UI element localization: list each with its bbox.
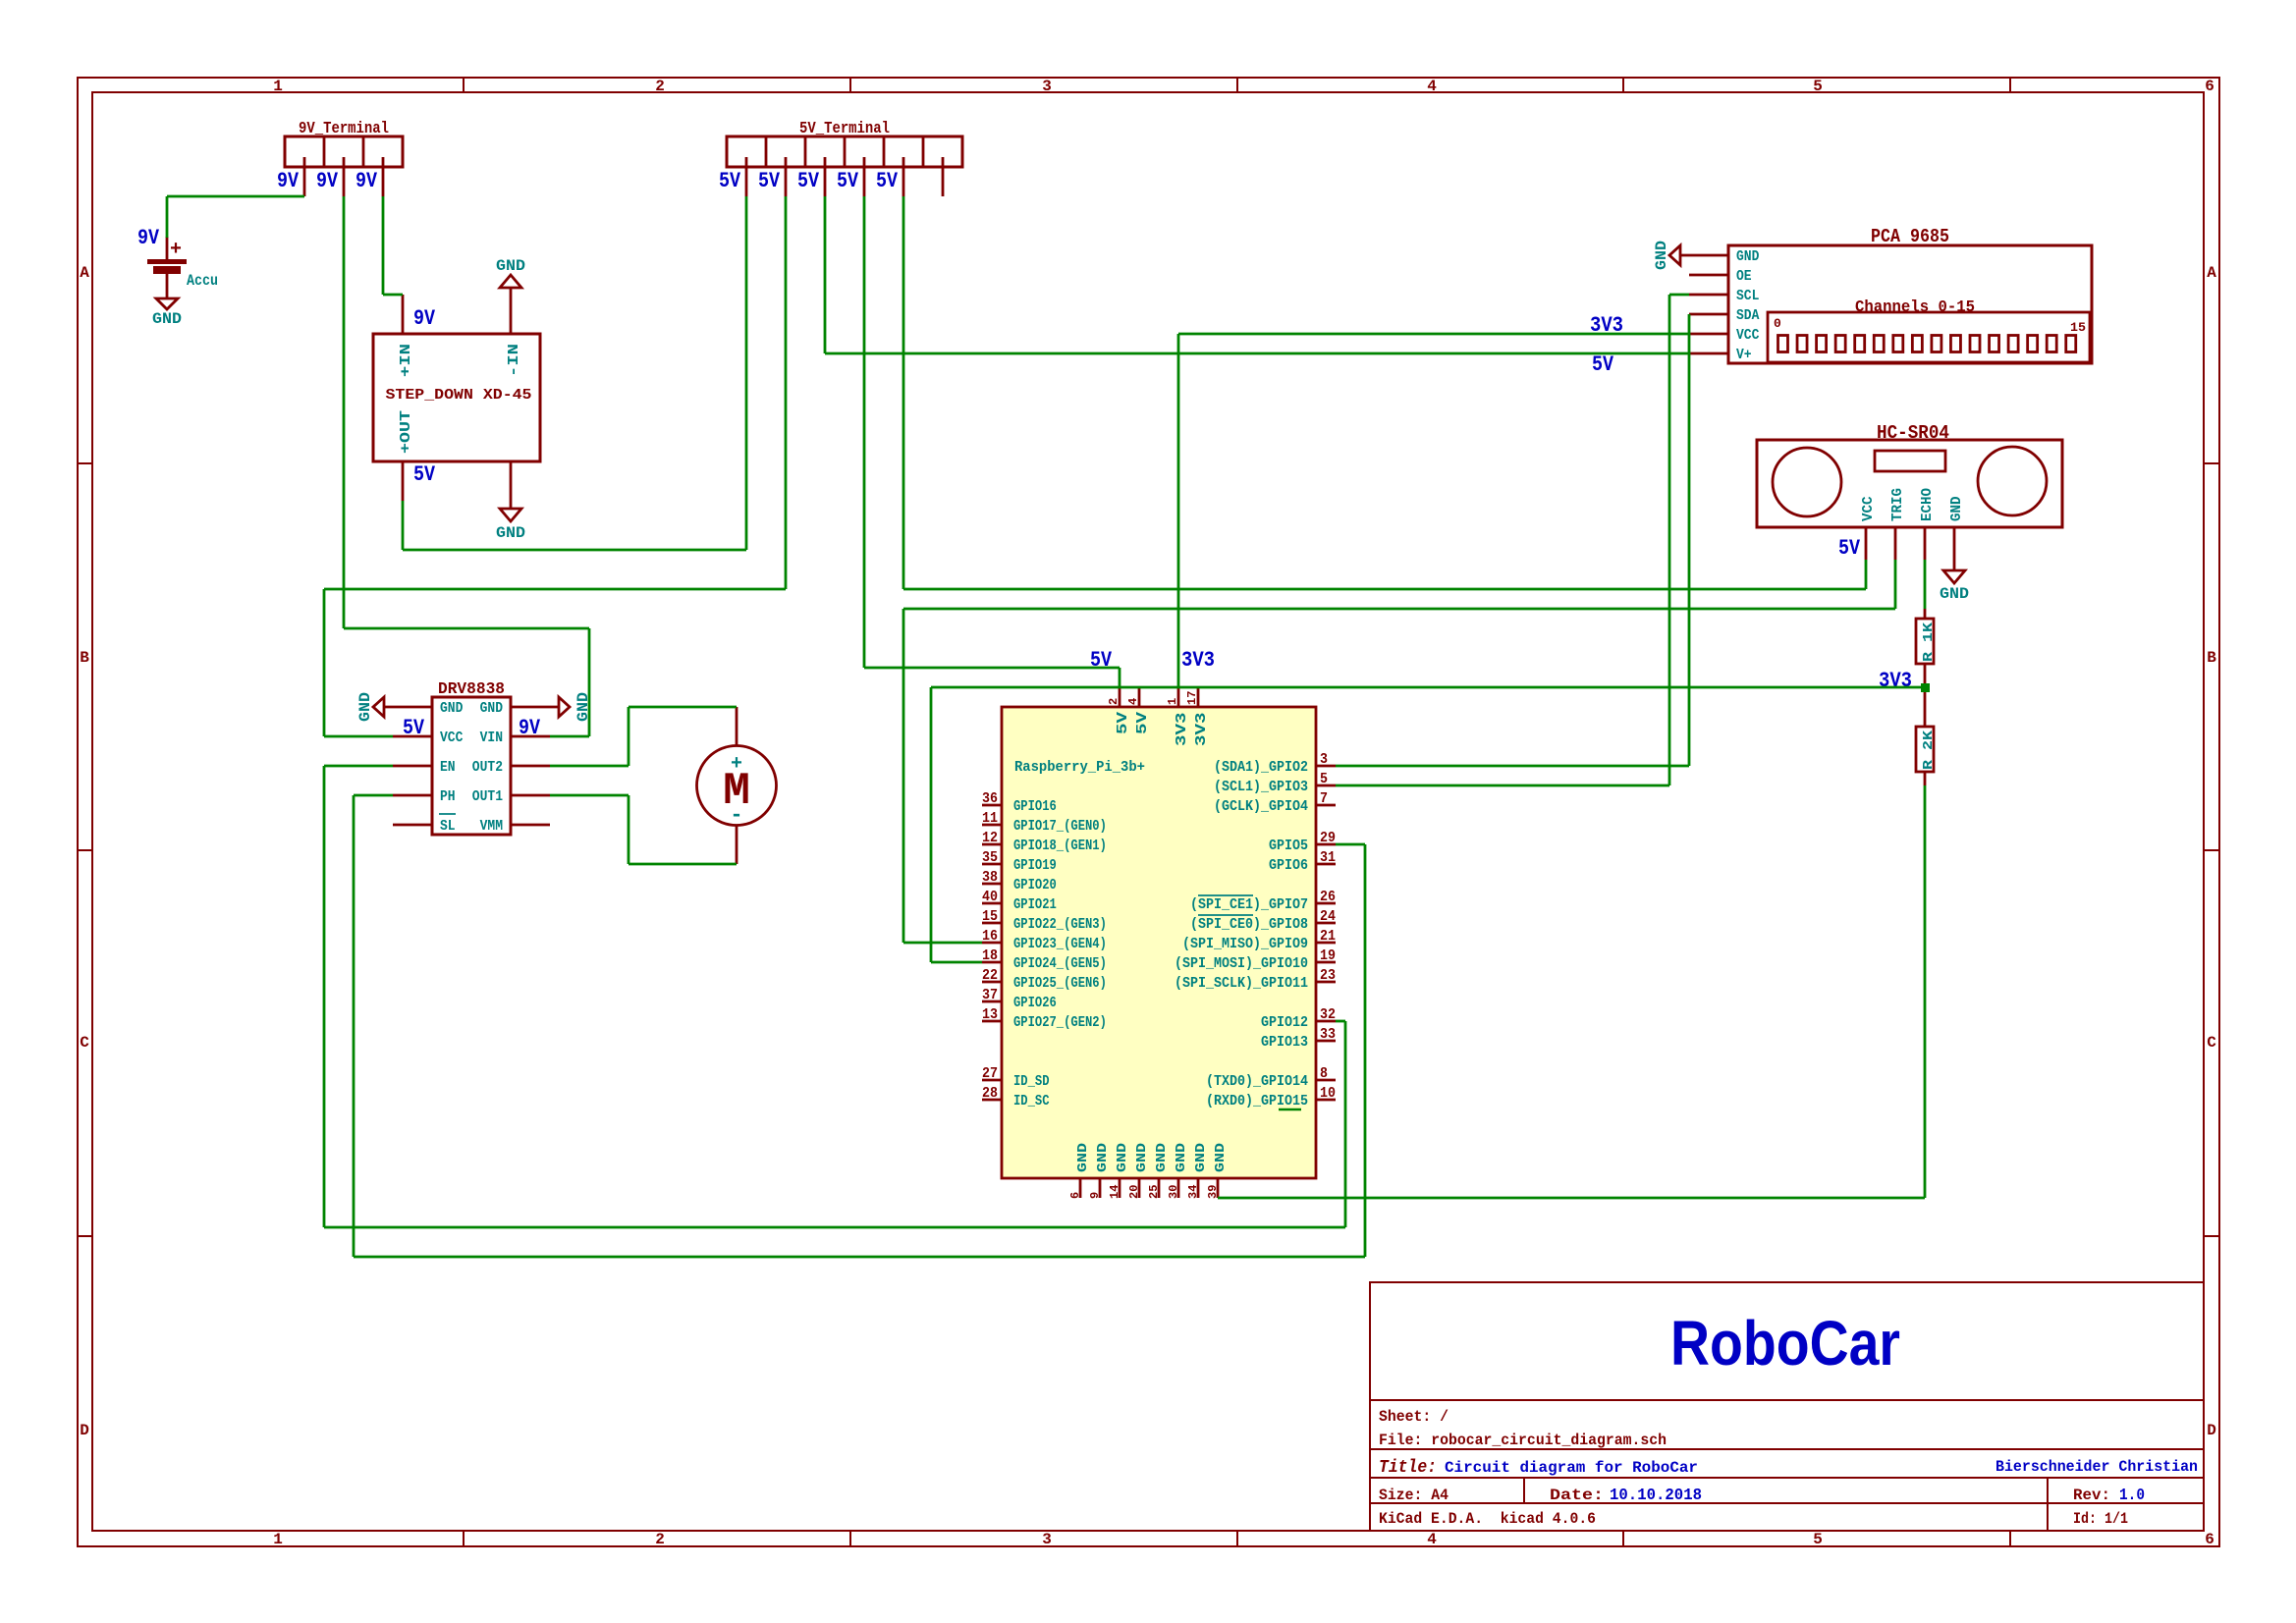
svg-text:C: C <box>2207 1034 2216 1052</box>
svg-text:3: 3 <box>1042 1531 1052 1548</box>
svg-text:Rev:: Rev: <box>2073 1487 2110 1504</box>
svg-text:VCC: VCC <box>1860 497 1877 522</box>
wire 3V3 vertical to PCA VCC <box>1177 334 1180 687</box>
svg-text:22: 22 <box>982 967 998 984</box>
svg-text:36: 36 <box>982 790 998 807</box>
svg-text:12: 12 <box>982 830 998 846</box>
DRV8838 left GND flag <box>384 706 432 709</box>
svg-text:R 2K: R 2K <box>1921 730 1937 770</box>
title block <box>1370 1282 2204 1531</box>
svg-text:VIN: VIN <box>480 730 503 746</box>
svg-text:VCC: VCC <box>440 730 463 746</box>
svg-text:3: 3 <box>1042 78 1052 95</box>
svg-text:KiCad E.D.A. kicad 4.0.6: KiCad E.D.A. kicad 4.0.6 <box>1379 1510 1596 1528</box>
pin at x=880 <box>863 157 866 196</box>
svg-text:GPIO12: GPIO12 <box>1261 1014 1308 1031</box>
svg-text:4: 4 <box>1427 1531 1437 1548</box>
svg-text:ID_SD: ID_SD <box>1013 1073 1050 1090</box>
svg-text:6: 6 <box>2205 1531 2214 1548</box>
svg-text:+IN: +IN <box>398 344 414 377</box>
svg-text:1: 1 <box>273 1531 283 1548</box>
svg-text:5V: 5V <box>876 169 899 193</box>
svg-text:D: D <box>80 1422 89 1439</box>
HC-SR04 pin stubs <box>1865 527 1868 560</box>
svg-text:27: 27 <box>982 1065 998 1082</box>
svg-text:5V: 5V <box>1115 712 1131 734</box>
svg-text:GND: GND <box>496 524 525 542</box>
svg-text:GPIO20: GPIO20 <box>1013 877 1057 893</box>
resistor R 1K <box>1916 619 1934 664</box>
svg-text:5V: 5V <box>403 716 425 740</box>
svg-text:GND: GND <box>1154 1143 1170 1172</box>
svg-text:5V: 5V <box>1838 536 1861 561</box>
wire OUT2 to motor + <box>550 765 629 768</box>
svg-text:GND: GND <box>1948 497 1965 522</box>
svg-text:+OUT: +OUT <box>398 410 414 454</box>
wire TRIG to GPIO23 <box>902 609 905 943</box>
svg-text:15: 15 <box>982 908 998 925</box>
svg-text:TRIG: TRIG <box>1889 488 1906 521</box>
svg-text:5V: 5V <box>1592 352 1614 377</box>
ground symbol below battery <box>156 298 178 309</box>
svg-text:9V: 9V <box>519 716 541 740</box>
svg-text:4: 4 <box>1427 78 1437 95</box>
svg-text:PCA 9685: PCA 9685 <box>1871 226 1949 247</box>
wire Pi GND to R2K <box>1218 1197 1925 1200</box>
svg-text:5V: 5V <box>719 169 741 193</box>
wire OUT1 to motor - <box>550 794 629 797</box>
svg-text:GPIO26: GPIO26 <box>1013 995 1057 1011</box>
svg-text:GND: GND <box>1736 248 1759 265</box>
svg-text:10.10.2018: 10.10.2018 <box>1610 1487 1702 1505</box>
resistor R 2K <box>1916 727 1934 772</box>
svg-text:34: 34 <box>1186 1185 1200 1199</box>
svg-text:Size: A4: Size: A4 <box>1379 1487 1449 1504</box>
svg-text:GPIO13: GPIO13 <box>1261 1034 1308 1051</box>
svg-text:GPIO17_(GEN0): GPIO17_(GEN0) <box>1013 818 1107 835</box>
wire +OUT 5V to 5V pin1 <box>402 501 405 550</box>
svg-text:5V: 5V <box>1090 648 1113 673</box>
svg-text:GND: GND <box>480 700 503 717</box>
wire PCA SDA to Pi GPIO2 <box>1688 314 1691 766</box>
PWM driver PCA 9685 <box>1728 245 2092 363</box>
svg-text:Title:: Title: <box>1379 1458 1437 1478</box>
svg-text:40: 40 <box>982 889 998 905</box>
svg-text:6: 6 <box>2205 78 2214 95</box>
svg-text:+: + <box>170 239 182 261</box>
GND flag below -OUT <box>500 509 521 521</box>
svg-text:14: 14 <box>1108 1185 1121 1199</box>
svg-text:(RXD0)_GPIO15: (RXD0)_GPIO15 <box>1206 1093 1308 1109</box>
svg-text:2: 2 <box>655 1531 665 1548</box>
GND flag above -IN <box>500 275 521 288</box>
pin at x=350 <box>343 157 346 196</box>
top power pins <box>1119 687 1121 707</box>
svg-text:(SPI_SCLK)_GPIO11: (SPI_SCLK)_GPIO11 <box>1175 975 1308 992</box>
motor M <box>697 746 777 826</box>
svg-text:35: 35 <box>982 849 998 866</box>
svg-text:OUT1: OUT1 <box>472 788 503 805</box>
wire GPIO5 to DRV PH <box>1336 843 1365 846</box>
svg-text:39: 39 <box>1206 1185 1220 1199</box>
pin at x=960 <box>942 157 945 196</box>
svg-text:5V: 5V <box>837 169 859 193</box>
svg-text:GND: GND <box>1095 1143 1111 1172</box>
svg-text:GND: GND <box>1940 585 1969 603</box>
svg-text:(SPI_MISO)_GPIO9: (SPI_MISO)_GPIO9 <box>1182 936 1308 952</box>
svg-text:EN: EN <box>440 759 456 776</box>
wire battery to 9V pin1 <box>167 195 304 198</box>
svg-text:+: + <box>731 753 742 776</box>
svg-text:GND: GND <box>440 700 463 717</box>
svg-text:33: 33 <box>1320 1026 1336 1043</box>
svg-text:29: 29 <box>1320 830 1336 846</box>
svg-text:OUT2: OUT2 <box>472 759 503 776</box>
svg-text:Raspberry_Pi_3b+: Raspberry_Pi_3b+ <box>1014 759 1145 776</box>
svg-text:9V: 9V <box>316 169 339 193</box>
svg-text:GPIO19: GPIO19 <box>1013 857 1057 874</box>
wire 5V pin2 to DRV VCC <box>785 196 788 589</box>
GND flag below HC-SR04 <box>1943 570 1965 583</box>
svg-text:23: 23 <box>1320 967 1336 984</box>
svg-text:B: B <box>2207 649 2216 667</box>
svg-text:(SPI_CE0)_GPIO8: (SPI_CE0)_GPIO8 <box>1190 916 1308 933</box>
svg-text:GND: GND <box>1213 1143 1229 1172</box>
svg-text:5V: 5V <box>1134 712 1151 734</box>
svg-text:30: 30 <box>1167 1185 1180 1199</box>
svg-text:(SCL1)_GPIO3: (SCL1)_GPIO3 <box>1214 779 1308 795</box>
svg-text:GPIO27_(GEN2): GPIO27_(GEN2) <box>1013 1014 1107 1031</box>
wire GPIO12 to DRV EN <box>1336 1020 1345 1023</box>
svg-text:26: 26 <box>1320 889 1336 905</box>
svg-text:GPIO18_(GEN1): GPIO18_(GEN1) <box>1013 838 1107 854</box>
svg-text:9V: 9V <box>137 226 160 250</box>
svg-text:STEP_DOWN XD-45: STEP_DOWN XD-45 <box>386 387 532 404</box>
PCA GND flag <box>1680 254 1728 257</box>
svg-text:-IN: -IN <box>506 344 522 377</box>
pin at x=760 <box>745 157 748 196</box>
svg-text:ECHO: ECHO <box>1919 488 1936 521</box>
wire 9V pin2 to VIN <box>343 196 346 628</box>
svg-text:3V3: 3V3 <box>1193 713 1210 747</box>
wire 5V pin4 to Pi 5V <box>863 196 866 668</box>
svg-text:PH: PH <box>440 788 456 805</box>
svg-text:5: 5 <box>1813 78 1823 95</box>
svg-text:SDA: SDA <box>1736 307 1759 324</box>
svg-text:R 1K: R 1K <box>1921 622 1937 662</box>
svg-text:(TXD0)_GPIO14: (TXD0)_GPIO14 <box>1206 1073 1308 1090</box>
svg-text:C: C <box>80 1034 89 1052</box>
svg-text:D: D <box>2207 1422 2216 1439</box>
wire 5V pin3 to PCA V+ <box>824 196 827 353</box>
svg-text:25: 25 <box>1147 1185 1161 1199</box>
svg-text:3V3: 3V3 <box>1879 669 1912 693</box>
svg-text:9V: 9V <box>413 306 436 331</box>
wire ECHO to R1K <box>1924 560 1927 609</box>
DRV8838 pin stubs <box>393 735 432 738</box>
svg-text:0: 0 <box>1774 316 1781 331</box>
svg-text:7: 7 <box>1320 790 1328 807</box>
pin -IN <box>510 289 513 334</box>
svg-text:1: 1 <box>273 78 283 95</box>
pin at x=310 <box>303 157 306 196</box>
svg-text:GPIO16: GPIO16 <box>1013 798 1057 815</box>
svg-text:GND: GND <box>1174 1143 1189 1172</box>
svg-text:5V: 5V <box>758 169 781 193</box>
svg-text:GPIO22_(GEN3): GPIO22_(GEN3) <box>1013 916 1107 933</box>
svg-text:10: 10 <box>1320 1085 1336 1102</box>
svg-text:ID_SC: ID_SC <box>1013 1093 1050 1109</box>
svg-text:GPIO21: GPIO21 <box>1013 896 1057 913</box>
svg-text:19: 19 <box>1320 947 1336 964</box>
svg-text:4: 4 <box>1126 698 1140 705</box>
svg-text:GND: GND <box>1653 241 1670 270</box>
pin at x=840 <box>824 157 827 196</box>
svg-text:GND: GND <box>1134 1143 1150 1172</box>
svg-text:1.0: 1.0 <box>2119 1487 2145 1505</box>
svg-text:SCL: SCL <box>1736 288 1759 304</box>
Raspberry_Pi_3b+ <box>1002 707 1316 1178</box>
svg-text:8: 8 <box>1320 1065 1328 1082</box>
svg-text:HC-SR04: HC-SR04 <box>1877 422 1949 444</box>
svg-text:GND: GND <box>356 692 374 722</box>
svg-text:A: A <box>80 264 89 282</box>
left pins <box>982 804 1002 807</box>
svg-text:6: 6 <box>1068 1192 1082 1199</box>
svg-text:GND: GND <box>1075 1143 1091 1172</box>
svg-text:3V3: 3V3 <box>1590 313 1623 338</box>
svg-text:21: 21 <box>1320 928 1336 945</box>
pin at x=390 <box>382 157 385 196</box>
svg-text:16: 16 <box>982 928 998 945</box>
svg-text:38: 38 <box>982 869 998 886</box>
svg-text:File: robocar_circuit_diagram.: File: robocar_circuit_diagram.sch <box>1379 1432 1667 1449</box>
svg-text:5: 5 <box>1813 1531 1823 1548</box>
svg-text:Sheet: /: Sheet: / <box>1379 1408 1449 1426</box>
svg-text:RoboCar: RoboCar <box>1670 1308 1900 1379</box>
svg-text:VMM: VMM <box>480 818 503 835</box>
svg-text:Id: 1/1: Id: 1/1 <box>2073 1510 2128 1528</box>
pin at x=920 <box>902 157 905 196</box>
svg-text:OE: OE <box>1736 268 1752 285</box>
pin +OUT <box>402 461 405 501</box>
svg-text:9: 9 <box>1088 1192 1102 1199</box>
svg-text:DRV8838: DRV8838 <box>438 680 505 699</box>
svg-text:GPIO25_(GEN6): GPIO25_(GEN6) <box>1013 975 1107 992</box>
svg-text:5: 5 <box>1320 771 1328 787</box>
motor driver DRV8838 <box>432 697 511 835</box>
svg-text:VCC: VCC <box>1736 327 1759 344</box>
wire PCA SCL to Pi GPIO3 <box>1669 294 1689 297</box>
svg-text:17: 17 <box>1185 691 1199 705</box>
svg-text:3V3: 3V3 <box>1174 713 1190 747</box>
svg-text:24: 24 <box>1320 908 1336 925</box>
svg-text:Date:: Date: <box>1550 1487 1604 1504</box>
svg-text:(GCLK)_GPIO4: (GCLK)_GPIO4 <box>1214 798 1308 815</box>
svg-text:GPIO24_(GEN5): GPIO24_(GEN5) <box>1013 955 1107 972</box>
wire 3V3 rail to GPIO24 <box>931 686 1925 689</box>
svg-text:GPIO23_(GEN4): GPIO23_(GEN4) <box>1013 936 1107 952</box>
svg-text:GND: GND <box>152 310 182 328</box>
svg-text:A: A <box>2207 264 2216 282</box>
svg-text:GND: GND <box>1115 1143 1130 1172</box>
wire 5V pin5 to HC-SR04 VCC <box>902 196 905 589</box>
svg-text:2: 2 <box>1107 698 1121 705</box>
svg-text:32: 32 <box>1320 1006 1336 1023</box>
svg-text:(SPI_MOSI)_GPIO10: (SPI_MOSI)_GPIO10 <box>1175 955 1308 972</box>
3V3 node junction <box>1921 683 1930 692</box>
svg-text:1: 1 <box>1166 698 1179 705</box>
svg-text:11: 11 <box>982 810 998 827</box>
svg-text:9V: 9V <box>355 169 378 193</box>
svg-text:SL: SL <box>440 818 456 835</box>
svg-text:5V: 5V <box>413 462 436 487</box>
svg-text:28: 28 <box>982 1085 998 1102</box>
svg-text:GND: GND <box>1193 1143 1209 1172</box>
DRV8838 right GND flag <box>511 706 559 709</box>
motor terminal stubs <box>736 707 738 746</box>
bottom GND pins <box>1079 1178 1082 1198</box>
svg-text:3V3: 3V3 <box>1181 648 1215 673</box>
svg-text:Bierschneider Christian: Bierschneider Christian <box>1995 1458 2198 1476</box>
svg-text:15: 15 <box>2070 320 2086 335</box>
svg-text:Channels 0-15: Channels 0-15 <box>1855 298 1975 317</box>
svg-text:5V: 5V <box>797 169 820 193</box>
svg-text:37: 37 <box>982 987 998 1003</box>
svg-text:GPIO5: GPIO5 <box>1269 838 1308 854</box>
svg-text:GPIO6: GPIO6 <box>1269 857 1308 874</box>
regulator STEP_DOWN XD-45 <box>373 334 540 461</box>
overlines on SPI_CE1 / SPI_CE0 <box>1198 894 1253 896</box>
svg-text:9V: 9V <box>277 169 300 193</box>
svg-text:V+: V+ <box>1736 347 1752 363</box>
svg-text:Circuit diagram for RoboCar: Circuit diagram for RoboCar <box>1445 1459 1698 1477</box>
svg-text:GND: GND <box>496 257 525 275</box>
pin at x=800 <box>785 157 788 196</box>
svg-text:(SPI_CE1)_GPIO7: (SPI_CE1)_GPIO7 <box>1190 896 1308 913</box>
wire 9V pin3 to +IN <box>382 196 385 295</box>
svg-text:-: - <box>730 803 742 828</box>
svg-text:20: 20 <box>1127 1185 1141 1199</box>
svg-text:(SDA1)_GPIO2: (SDA1)_GPIO2 <box>1214 759 1308 776</box>
pin +IN <box>402 295 405 334</box>
svg-text:31: 31 <box>1320 849 1336 866</box>
svg-text:B: B <box>80 649 89 667</box>
ultrasonic sensor HC-SR04 <box>1757 440 2062 527</box>
right pins <box>1316 765 1336 768</box>
svg-text:13: 13 <box>982 1006 998 1023</box>
svg-text:Accu: Accu <box>187 272 218 290</box>
svg-text:2: 2 <box>655 78 665 95</box>
pin -OUT <box>510 461 513 509</box>
svg-text:18: 18 <box>982 947 998 964</box>
svg-text:3: 3 <box>1320 751 1328 768</box>
